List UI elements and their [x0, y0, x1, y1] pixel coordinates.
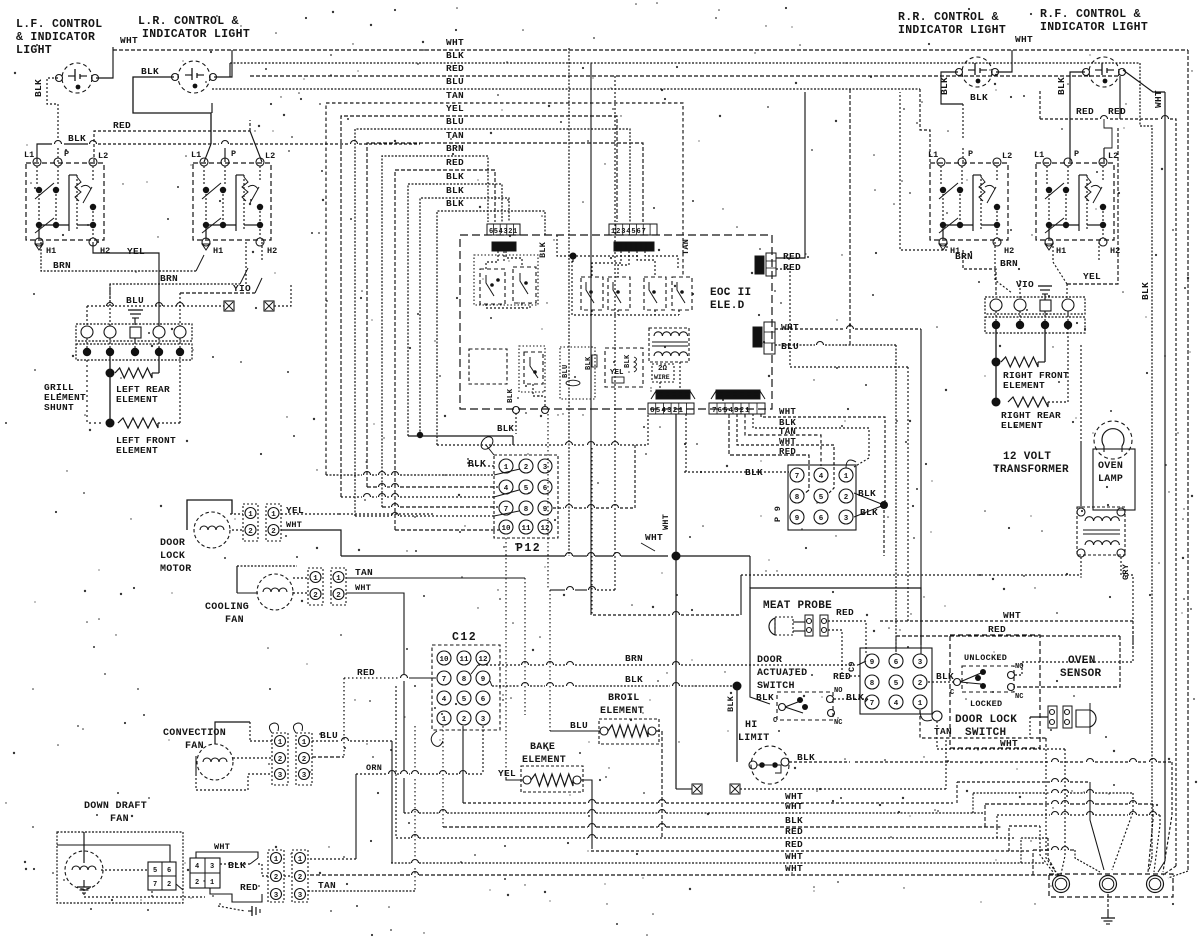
EOC board edge terminal 516 — [513, 407, 520, 414]
svg-text:1: 1 — [298, 856, 303, 864]
switch L.F. terminal H2 — [89, 238, 97, 246]
svg-text:BLU: BLU — [446, 116, 464, 127]
svg-text:1: 1 — [844, 473, 849, 481]
svg-text:BLK: BLK — [797, 752, 815, 763]
svg-text:WHT: WHT — [1003, 610, 1021, 621]
terminal 2 — [1100, 876, 1117, 893]
wire inline connectors to x946 — [740, 788, 946, 790]
svg-text:C: C — [950, 689, 954, 697]
svg-text:LOCK: LOCK — [160, 551, 185, 562]
svg-text:BLK: BLK — [625, 674, 643, 685]
svg-text:INDICATOR LIGHT: INDICATOR LIGHT — [1040, 21, 1148, 34]
right terminal block lower — [985, 317, 1085, 333]
svg-text:ACTUATED: ACTUATED — [757, 668, 807, 679]
svg-text:8: 8 — [462, 676, 467, 684]
bake element resistor — [521, 766, 583, 792]
wire BLU plug b right — [274, 284, 291, 306]
wire door lock NO to right — [1015, 625, 1133, 675]
EOC relay group middle — [581, 277, 603, 310]
wire row y507 BRN to P12 pin7 — [382, 506, 390, 508]
svg-text:WHT: WHT — [785, 851, 803, 862]
svg-text:BLK: BLK — [228, 860, 246, 871]
svg-text:3: 3 — [302, 772, 307, 780]
svg-text:P: P — [64, 149, 69, 159]
cooling fan connector b — [331, 568, 346, 605]
wire riser x946 to TAN — [945, 740, 947, 789]
switch L.R. contacts — [203, 166, 205, 185]
wire yel corner — [339, 514, 433, 516]
switch L.R. terminal L1 — [200, 158, 208, 166]
wires 3pin to right — [284, 875, 292, 877]
wire ORN riser x356 — [355, 774, 357, 859]
svg-text:RED: RED — [1076, 106, 1094, 117]
svg-text:BLK: BLK — [858, 488, 876, 499]
junction WHT x676 y556 — [672, 552, 681, 561]
door lock switch outer box — [950, 635, 1040, 748]
svg-text:2: 2 — [844, 494, 849, 502]
svg-text:BLU: BLU — [781, 341, 799, 352]
svg-text:BRN: BRN — [1000, 258, 1018, 269]
wire step from bus y803 — [956, 782, 958, 803]
wire hi-limit BLK to terminal 3 — [855, 761, 1050, 763]
switch L.F. terminal P — [54, 158, 62, 166]
svg-text:12: 12 — [478, 656, 488, 664]
svg-text:BLK: BLK — [846, 692, 864, 703]
EOC yel box — [605, 348, 643, 387]
svg-text:2: 2 — [278, 756, 283, 764]
wire WHT from motor connector — [281, 530, 341, 556]
EOC top connector strip 1 — [487, 224, 520, 235]
wire WHT to junction — [341, 555, 565, 557]
svg-text:LAMP: LAMP — [1098, 474, 1123, 485]
switch L.R. terminal L2 — [256, 158, 264, 166]
EOC right plug WHT BLU — [753, 327, 762, 347]
svg-text:7: 7 — [153, 881, 157, 889]
svg-text:GRY: GRY — [1121, 563, 1131, 580]
svg-text:BLK: BLK — [68, 133, 86, 144]
wire WHT from L.F. lamp to top bus — [96, 47, 113, 78]
wire YEL from P12 pin10 to bake — [505, 538, 507, 777]
infinite switch L.F. body — [26, 163, 104, 240]
C9 pins — [865, 654, 879, 668]
svg-text:COOLING: COOLING — [205, 602, 249, 613]
meat probe connector a — [805, 615, 813, 636]
svg-text:BLK: BLK — [141, 66, 159, 77]
svg-text:LOCKED: LOCKED — [970, 699, 1002, 709]
wire meat probe b lower — [828, 630, 862, 676]
switch R.F. H wires — [1048, 190, 1050, 225]
indicator lamp R.R. — [962, 57, 992, 87]
resistor right rear element — [992, 398, 1001, 407]
svg-text:BLK: BLK — [624, 354, 632, 368]
switch L.F. contacts — [36, 166, 38, 185]
svg-text:BLK: BLK — [446, 198, 464, 209]
oven sensor connector b — [1063, 706, 1072, 728]
svg-text:5: 5 — [819, 494, 824, 502]
svg-text:1: 1 — [302, 739, 307, 747]
terminal 3 — [1147, 876, 1164, 893]
svg-text:BLU: BLU — [446, 76, 464, 87]
svg-text:3: 3 — [298, 892, 303, 900]
wire P12 pin9 right — [553, 507, 564, 509]
door lock motor connector a — [243, 504, 258, 541]
svg-text:VIO: VIO — [1016, 279, 1034, 290]
switch L.R. H wires — [205, 190, 207, 225]
svg-text:2: 2 — [298, 874, 303, 882]
wire x548 down from EOC to broil — [547, 414, 549, 588]
wire riser C12 pin1 to BLK bus — [442, 726, 444, 827]
wire x516 down to BLK y435 — [515, 413, 517, 434]
wire RED from EOC plug down via x908 — [776, 269, 908, 367]
C12 connector box — [432, 645, 500, 730]
svg-text:BLK: BLK — [468, 458, 486, 469]
ground symbol down draft aux — [248, 910, 252, 912]
vertical wires center x569 x591 x615 — [568, 48, 570, 556]
resistor left rear element — [106, 369, 115, 378]
svg-text:INDICATOR LIGHT: INDICATOR LIGHT — [142, 28, 250, 41]
EOC K1 wire to board edge — [533, 384, 545, 406]
connector plug BLU a — [224, 301, 234, 311]
down draft fan connector 4pin — [148, 862, 176, 890]
down draft fan motor — [65, 851, 103, 889]
svg-text:1: 1 — [504, 464, 509, 472]
wire C12 pin9 down-right to BLK — [490, 681, 492, 686]
svg-text:NC: NC — [834, 719, 842, 727]
svg-text:P: P — [968, 149, 973, 159]
svg-text:BLK: BLK — [756, 692, 774, 703]
oven sensor probe — [1076, 710, 1096, 727]
meat probe connector b — [820, 615, 828, 636]
wire fan to conn — [293, 577, 308, 579]
wire BLK to door actuated switch — [750, 640, 770, 704]
left block risers — [86, 338, 88, 348]
switch R.R. terminal H1 — [939, 244, 947, 250]
svg-text:RED: RED — [113, 120, 131, 131]
wire row y530 RED to P12 pin10 — [395, 529, 499, 531]
switch L.F. H wires — [38, 190, 40, 225]
svg-text:8: 8 — [795, 494, 800, 502]
wire WHT y621 — [880, 620, 1133, 622]
svg-text:CONVECTION: CONVECTION — [163, 728, 226, 739]
svg-text:LIGHT: LIGHT — [16, 44, 52, 57]
svg-text:7: 7 — [442, 676, 447, 684]
door lock motor connector b — [266, 504, 281, 541]
wire step from bus y863 — [1020, 838, 1022, 863]
svg-text:4: 4 — [894, 700, 899, 708]
switch L.R. terminal H2 — [256, 238, 264, 246]
svg-text:BLK: BLK — [970, 92, 988, 103]
P12 pins — [499, 459, 513, 473]
down draft right wires — [176, 884, 183, 890]
oven sensor connector a — [1048, 706, 1057, 728]
svg-text:BLK: BLK — [507, 388, 515, 403]
svg-text:RED: RED — [446, 157, 464, 168]
svg-text:MOTOR: MOTOR — [160, 564, 192, 575]
wire BLU from EOC to C9 pin6 col — [775, 344, 815, 346]
wire BLK down draft — [220, 863, 250, 865]
wire WHT down draft — [196, 852, 258, 858]
EOC lower-left dashed box — [469, 349, 507, 384]
wire down draft pin1 to ORN riser — [310, 858, 356, 860]
svg-text:DOOR: DOOR — [160, 538, 185, 549]
svg-text:H2: H2 — [1110, 246, 1120, 256]
svg-text:BLU: BLU — [126, 295, 144, 306]
EOC transformer to strip wires — [659, 382, 661, 390]
svg-text:L2: L2 — [265, 151, 275, 161]
wire RED from meat probe — [828, 621, 869, 657]
C12 hook — [431, 731, 443, 746]
wire WHT from EOC to C9 pin3 col — [775, 328, 845, 330]
funnel slants into terminal 1 — [1040, 826, 1053, 872]
svg-text:1: 1 — [442, 716, 447, 724]
svg-text:1: 1 — [271, 511, 276, 519]
wire riser R.F. L2 — [1103, 148, 1105, 162]
wire RED right vert — [1017, 636, 1120, 687]
svg-text:BLK: BLK — [1140, 282, 1151, 300]
svg-text:5: 5 — [462, 696, 467, 704]
wire WHT bottom — [937, 721, 1035, 749]
junction BLK x737 — [733, 682, 742, 691]
second connector 4pin — [190, 858, 220, 888]
resistor left front element — [106, 419, 115, 428]
infinite switch R.R. body — [930, 163, 1008, 240]
indicator lamp R.F. — [1089, 57, 1119, 87]
svg-text:L.F. CONTROL: L.F. CONTROL — [16, 18, 102, 31]
svg-text:WHT: WHT — [1000, 738, 1018, 749]
svg-text:BROIL: BROIL — [608, 693, 640, 704]
wire row y487 TAN to P12 pin4 — [367, 486, 377, 488]
svg-text:BLK: BLK — [1056, 77, 1067, 95]
wire riser C12 pin2 to WHT bus — [462, 726, 464, 803]
svg-text:C: C — [773, 717, 777, 725]
resistor right front element — [992, 358, 1001, 367]
svg-text:DOOR LOCK: DOOR LOCK — [955, 714, 1017, 726]
wire C9 bottom hook — [920, 710, 932, 721]
EOC board edge terminal 545 — [542, 407, 549, 414]
svg-text:9: 9 — [795, 515, 800, 523]
wire vertical x396 to bus — [395, 686, 397, 838]
svg-text:4: 4 — [504, 485, 509, 493]
wire WHT strip2 pin1 to junction x885 — [761, 414, 885, 505]
wire WHT cooling fan to bottom bus — [346, 593, 404, 674]
svg-text:BLK: BLK — [446, 171, 464, 182]
svg-text:3: 3 — [481, 716, 486, 724]
svg-text:H2: H2 — [267, 246, 277, 256]
convection fan body — [197, 744, 233, 780]
capacitor right block — [1038, 285, 1052, 287]
indicator lamp L.R. — [178, 61, 210, 93]
svg-text:654321: 654321 — [650, 407, 684, 415]
svg-text:TAN: TAN — [681, 239, 691, 255]
wire RED strip2 pin5 to P9 pin8 — [729, 414, 809, 494]
ground stub near connector — [218, 906, 245, 911]
EOC relay K1 box — [519, 346, 545, 392]
EOC relay left wires — [486, 251, 498, 269]
svg-text:YIO: YIO — [233, 283, 251, 294]
wire WHT bus to R.R. lamp — [996, 50, 1012, 72]
door lock motor body — [187, 500, 232, 530]
wire BLK x737 down to hi-limit — [736, 686, 738, 762]
svg-text:3: 3 — [210, 863, 214, 871]
svg-text:RED: RED — [357, 667, 375, 678]
infinite switch L.R. body — [193, 163, 271, 240]
switch R.R. terminal L1 — [937, 158, 945, 166]
wire row y475 TAN to P12 — [326, 474, 362, 476]
switch L.R. terminal H1 — [202, 244, 210, 250]
svg-text:H1: H1 — [46, 246, 56, 256]
svg-text:WHT: WHT — [446, 37, 464, 48]
wire WHT door lock to terminal 1 — [1035, 748, 1065, 750]
down draft bottom wire — [84, 889, 152, 897]
svg-text:3: 3 — [543, 464, 548, 472]
svg-text:YEL: YEL — [127, 246, 145, 257]
svg-text:2: 2 — [524, 464, 529, 472]
svg-text:R.R. CONTROL &: R.R. CONTROL & — [898, 11, 999, 24]
svg-text:FAN: FAN — [225, 615, 244, 626]
EOC II board outline — [460, 235, 772, 409]
wire conv pin2 riser x344 — [343, 678, 345, 757]
junction dot right of P9 — [880, 501, 888, 509]
switch R.F. contacts — [1046, 166, 1048, 185]
svg-text:OVEN: OVEN — [1068, 655, 1096, 667]
svg-text:WHT: WHT — [120, 35, 138, 46]
svg-text:1: 1 — [313, 575, 318, 583]
P9 connector box — [788, 465, 856, 530]
switch L.F. terminal L1 — [33, 158, 41, 166]
svg-text:H1: H1 — [213, 246, 223, 256]
svg-text:7: 7 — [870, 700, 875, 708]
left terminal block upper — [76, 324, 192, 341]
wire BLK into P9 pin7 — [684, 471, 789, 473]
svg-text:ELEMENT: ELEMENT — [1003, 380, 1045, 391]
svg-text:4: 4 — [819, 473, 824, 481]
svg-text:SHUNT: SHUNT — [44, 402, 74, 413]
svg-text:BRN: BRN — [160, 273, 178, 284]
switch R.R. terminal H2 — [993, 238, 1001, 246]
hi limit thermostat — [751, 746, 789, 784]
svg-text:1: 1 — [278, 739, 283, 747]
wire WHT top bus to L.R. lamp — [214, 50, 232, 77]
svg-text:RED: RED — [785, 826, 803, 837]
svg-text:C9: C9 — [847, 661, 857, 672]
svg-text:BLK: BLK — [936, 671, 954, 682]
EOC bottom strip 2 pins — [709, 403, 765, 414]
cooling fan body — [236, 566, 238, 593]
svg-text:6: 6 — [894, 659, 899, 667]
wire BLK strip2 pin2 to P9 pin1 — [753, 414, 869, 467]
svg-text:ELEMENT: ELEMENT — [116, 394, 158, 405]
svg-text:RED: RED — [836, 607, 854, 618]
svg-text:ORN: ORN — [366, 763, 382, 773]
EOC transformer — [654, 332, 688, 336]
P12 connector box — [494, 455, 558, 538]
wire BLU to broil from EOC — [550, 730, 600, 732]
switch L.F. terminal L2 — [89, 158, 97, 166]
svg-text:L1: L1 — [24, 150, 34, 160]
svg-text:3: 3 — [274, 892, 279, 900]
svg-text:L2: L2 — [98, 151, 108, 161]
svg-text:TAN: TAN — [318, 880, 336, 891]
wire BLK from hi limit right — [789, 761, 850, 763]
svg-text:2: 2 — [167, 881, 171, 889]
wire x896 down to C9 pin6 col — [895, 345, 897, 654]
indicator lamp L.F. — [62, 63, 92, 93]
door lock switch contacts — [954, 679, 961, 686]
wire TAN cooling fan — [346, 577, 525, 579]
svg-text:WHT: WHT — [1015, 34, 1033, 45]
switch R.R. terminal L2 — [993, 158, 1001, 166]
svg-text:BLU: BLU — [570, 720, 588, 731]
wire row y497 YEL to P12 — [341, 496, 362, 498]
svg-text:7: 7 — [795, 473, 800, 481]
svg-text:BRN: BRN — [446, 143, 464, 154]
svg-text:TAN: TAN — [355, 567, 373, 578]
svg-text:2: 2 — [271, 528, 276, 536]
wire TAN into relay 4 — [682, 253, 684, 277]
svg-text:WHT: WHT — [781, 322, 799, 333]
terminal block bottom right — [1049, 874, 1173, 897]
svg-text:1234567: 1234567 — [611, 228, 647, 236]
funnel slants into terminal 3 — [1148, 804, 1153, 872]
svg-text:RED: RED — [446, 63, 464, 74]
wire BLU bus riser x850 — [849, 89, 851, 345]
wires down draft motor to connector — [101, 869, 148, 871]
svg-text:YEL: YEL — [1083, 271, 1101, 282]
svg-text:2: 2 — [462, 716, 467, 724]
wire bake right output — [581, 780, 592, 849]
wire TAN vertical x525 — [524, 578, 526, 715]
svg-text:BLK: BLK — [538, 241, 548, 258]
wire x908 down to door lock WHT — [907, 367, 909, 621]
wire transformer top left up — [1080, 443, 1082, 508]
EOC bottom rail — [572, 257, 679, 315]
svg-text:1: 1 — [918, 700, 923, 708]
second 3pin connector — [292, 850, 308, 902]
C12 pins — [437, 651, 451, 665]
svg-text:NC: NC — [1015, 693, 1023, 701]
wire RED to C12 pin7 — [344, 677, 399, 679]
svg-text:WIRE: WIRE — [654, 374, 670, 381]
svg-text:12: 12 — [540, 525, 550, 533]
svg-text:BRN: BRN — [955, 251, 973, 262]
svg-text:YEL: YEL — [610, 369, 624, 377]
door lock switch contact box — [962, 666, 1014, 692]
svg-text:7654321: 7654321 — [712, 407, 751, 415]
vertical wire x676 from strip1 — [675, 414, 677, 555]
svg-text:9: 9 — [481, 676, 486, 684]
right terminal block upper — [985, 297, 1085, 314]
EOC middle lower box BLU — [560, 347, 595, 399]
inline connector plug b — [730, 784, 740, 794]
svg-text:2: 2 — [336, 592, 341, 600]
ground symbol main — [1107, 894, 1109, 911]
svg-text:2: 2 — [248, 528, 253, 536]
wire step from bus y813 — [972, 793, 974, 813]
svg-text:EOC II: EOC II — [710, 287, 751, 299]
switch L.R. terminal P — [221, 158, 229, 166]
wire step from bus y851 — [1008, 826, 1010, 851]
svg-text:1: 1 — [274, 856, 279, 864]
door actuated switch contacts — [777, 692, 833, 720]
wire BLK strip1 riser to P9 pin7 — [685, 414, 687, 472]
svg-text:6: 6 — [481, 696, 486, 704]
wire BLK y436 junction line — [408, 435, 513, 437]
svg-text:TAN: TAN — [446, 130, 464, 141]
wire WHT strip2 pin4 to P9 pin5 — [737, 414, 834, 493]
wire broil right output — [656, 731, 662, 838]
wire BLK from C9 pin2 to door lock switch — [928, 681, 954, 683]
svg-text:DOWN DRAFT: DOWN DRAFT — [84, 801, 147, 812]
